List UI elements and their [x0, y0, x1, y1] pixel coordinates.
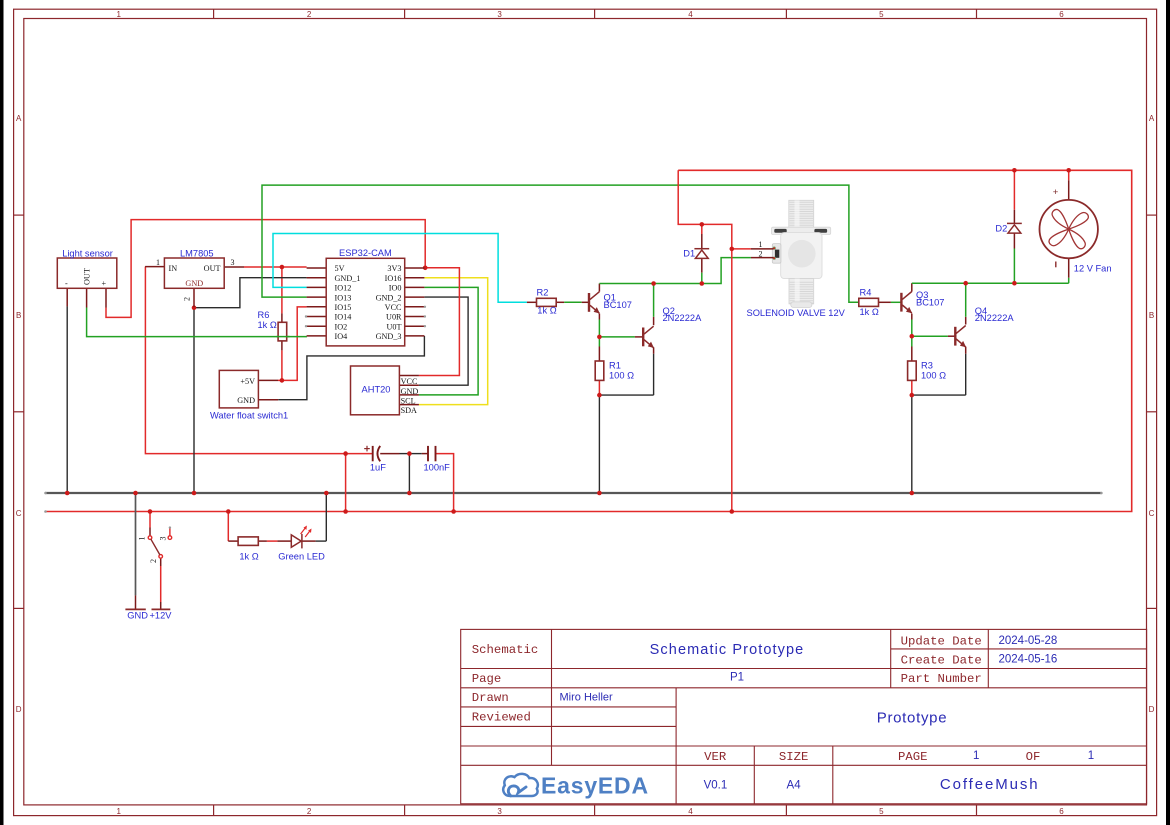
svg-text:1: 1	[759, 240, 763, 249]
title block texts	[472, 634, 1094, 793]
diode D2	[1007, 223, 1022, 233]
svg-text:BC107: BC107	[604, 300, 632, 310]
svg-text:B: B	[16, 311, 21, 320]
wire green IO0 to AHT20 SCL	[419, 287, 478, 395]
junction gnd bus: LED return	[324, 491, 329, 496]
junction gnd bus: LM GND	[192, 491, 197, 496]
junction node D1 bottom	[700, 281, 705, 286]
unconnected pin dot ESP32 U0R	[424, 315, 426, 317]
svg-text:5: 5	[879, 807, 884, 816]
svg-text:GND: GND	[401, 387, 419, 396]
wire R2 right lead to Q1 base	[556, 301, 588, 303]
svg-text:GND_3: GND_3	[376, 332, 402, 341]
svg-text:+12V: +12V	[150, 610, 173, 620]
junction node 12V feed to bus	[343, 451, 348, 456]
wire LM7805 IN down to 12V feed	[145, 267, 372, 454]
svg-text:1: 1	[138, 537, 147, 541]
unconnected pin dot ESP32 IO2	[305, 325, 307, 327]
wire switch feed from +12V bus	[149, 512, 151, 536]
junction node Q4 collector	[963, 281, 968, 286]
svg-text:3: 3	[497, 10, 502, 19]
svg-text:VCC: VCC	[401, 377, 418, 386]
junction gnd bus: light sensor	[65, 491, 70, 496]
junction 12V bus: C1	[343, 509, 348, 514]
svg-text:100nF: 100nF	[424, 463, 451, 473]
junction node D1 top	[700, 222, 705, 227]
junction node R1 bottom	[597, 393, 602, 398]
diode D1	[694, 249, 709, 259]
resistor R-LED 1k	[238, 537, 258, 546]
wire float switch +5V wire	[278, 379, 298, 381]
svg-text:+: +	[102, 279, 107, 288]
wire Q3 emitter to Q4 base	[912, 335, 955, 337]
svg-text:PAGE: PAGE	[898, 750, 928, 764]
wire Q3 collector riser	[911, 283, 913, 291]
svg-text:V0.1: V0.1	[704, 779, 728, 791]
svg-text:Drawn: Drawn	[472, 691, 509, 705]
solenoid valve component image	[772, 200, 831, 307]
svg-text:IO16: IO16	[385, 274, 402, 283]
svg-text:IO12: IO12	[335, 284, 352, 293]
water float switch	[219, 370, 278, 408]
svg-text:OF: OF	[1026, 750, 1041, 764]
svg-text:IN: IN	[169, 264, 178, 273]
svg-text:2: 2	[183, 297, 192, 301]
svg-text:R3: R3	[921, 361, 933, 371]
svg-text:6: 6	[1059, 807, 1064, 816]
transistor Q1	[589, 292, 600, 314]
svg-text:1uF: 1uF	[370, 463, 386, 473]
resistor R4	[859, 298, 879, 306]
svg-text:R1: R1	[609, 361, 621, 371]
junction node D2 top	[1012, 168, 1017, 173]
svg-text:Schematic: Schematic	[472, 643, 538, 657]
svg-text:100 Ω: 100 Ω	[921, 370, 946, 380]
resistor R1	[595, 361, 604, 380]
svg-text:2: 2	[307, 807, 312, 816]
wire light sensor OUT to ESP32 IO4	[87, 308, 307, 337]
svg-text:D1: D1	[683, 249, 695, 259]
wire Q1 emitter drop	[598, 314, 600, 337]
junction node Q3 emitter	[910, 334, 915, 339]
transistor Q2	[643, 326, 654, 348]
wire green over R6 body	[277, 336, 290, 338]
junction 12V bus: solenoid drop	[730, 509, 735, 514]
svg-text:5: 5	[879, 10, 884, 19]
wire green IO13 up-over to R4	[262, 185, 859, 302]
wire red loop to solenoid	[678, 170, 732, 511]
svg-text:LM7805: LM7805	[180, 249, 214, 259]
svg-text:U0R: U0R	[386, 313, 402, 322]
wire R1 chain	[598, 337, 600, 493]
capacitor C1 1uF electrolytic	[373, 446, 381, 461]
solenoid pin1 stub	[751, 248, 774, 250]
wire float switch GND to ESP32 GND_3	[278, 336, 424, 400]
wire cap middle drop to ground bus	[408, 454, 410, 493]
svg-text:Reviewed: Reviewed	[472, 710, 531, 724]
wire D2 top lead	[1013, 170, 1015, 223]
transistor Q3	[901, 292, 912, 314]
svg-text:OUT: OUT	[204, 264, 221, 273]
svg-text:U0T: U0T	[386, 322, 401, 331]
wire Q4 emitter to R3 bottom	[912, 394, 966, 396]
svg-text:3: 3	[497, 807, 502, 816]
svg-text:1: 1	[156, 258, 160, 267]
svg-text:+: +	[1053, 187, 1059, 198]
sensor AHT20	[351, 366, 419, 415]
svg-text:GND_1: GND_1	[335, 274, 361, 283]
junction node Q2 collector	[651, 281, 656, 286]
wire light sensor + to 3V3 rail	[106, 220, 425, 318]
svg-text:1: 1	[973, 750, 979, 762]
svg-text:1: 1	[1088, 750, 1094, 762]
junction node LM OUT / ESP 5V / R6	[280, 265, 285, 270]
wire LED branch feed	[228, 512, 238, 542]
toggle switch SW1	[148, 528, 172, 558]
wire D1 top lead	[701, 224, 703, 248]
wire Q1 collector green rail to solenoid pin2	[599, 258, 751, 284]
svg-text:1k Ω: 1k Ω	[239, 552, 258, 562]
svg-text:D: D	[1149, 705, 1155, 714]
svg-text:12 V Fan: 12 V Fan	[1074, 263, 1112, 273]
wire fan - lead	[1068, 258, 1070, 283]
fan motor 12V	[1040, 200, 1098, 258]
svg-text:EasyEDA: EasyEDA	[541, 773, 649, 799]
wire R-LED link	[258, 540, 291, 542]
resistor R3	[908, 361, 917, 380]
wire R3 chain	[911, 336, 913, 493]
wire Q1 emitter to Q2 base	[599, 336, 642, 338]
junction node Q1 emitter	[597, 335, 602, 340]
svg-text:+5V: +5V	[240, 377, 255, 386]
svg-text:GND: GND	[127, 610, 148, 620]
wire 12V feed drop to +12V bus	[345, 454, 347, 512]
svg-text:Schematic Prototype: Schematic Prototype	[650, 642, 805, 658]
wire LM7805 OUT to ESP32 5V	[244, 266, 307, 268]
svg-text:1: 1	[116, 10, 121, 19]
MCU module ESP32-CAM U1	[307, 258, 425, 346]
unconnected pin dot ESP32 U0T	[424, 325, 426, 327]
svg-text:A: A	[16, 114, 22, 123]
svg-text:2: 2	[149, 559, 158, 563]
svg-text:A: A	[1149, 114, 1155, 123]
svg-text:1k Ω: 1k Ω	[258, 320, 277, 330]
svg-text:SIZE: SIZE	[779, 750, 809, 764]
light sensor module	[57, 258, 117, 308]
svg-text:IO14: IO14	[335, 313, 352, 322]
svg-text:2: 2	[307, 10, 312, 19]
junction node fan +	[1066, 168, 1071, 173]
svg-text:GND: GND	[185, 279, 203, 288]
svg-text:1: 1	[116, 807, 121, 816]
junction node +5V float switch	[280, 378, 285, 383]
svg-text:100 Ω: 100 Ω	[609, 370, 634, 380]
svg-text:4: 4	[688, 10, 693, 19]
svg-text:2: 2	[759, 250, 763, 259]
wire Q2 collector riser	[653, 284, 655, 326]
+12V bus net	[45, 170, 1132, 511]
svg-text:1k Ω: 1k Ω	[860, 307, 879, 317]
svg-text:4: 4	[688, 807, 693, 816]
junction gnd bus: caps mid	[407, 491, 412, 496]
svg-text:SCL: SCL	[401, 397, 416, 406]
wire R4 right lead to Q3 base	[879, 301, 901, 303]
wire solenoid pin1 feed	[732, 248, 751, 250]
svg-text:OUT: OUT	[83, 268, 92, 285]
junction node D2 bottom	[1012, 281, 1017, 286]
svg-text:5V: 5V	[335, 264, 345, 273]
wire switch pin2 to +12V flag	[160, 558, 162, 609]
wire ground bus to GND flag	[135, 493, 137, 609]
svg-text:D2: D2	[995, 223, 1007, 233]
svg-text:3: 3	[231, 258, 235, 267]
wire fan + lead	[1068, 170, 1070, 200]
svg-text:BC107: BC107	[916, 297, 944, 307]
wire light sensor minus to ground bus	[66, 306, 68, 493]
svg-text:3V3: 3V3	[387, 264, 401, 273]
ground bus net GND	[45, 492, 1101, 494]
svg-text:IO15: IO15	[335, 303, 352, 312]
canvas edge bars	[0, 0, 4, 825]
wire Q4 emitter drop	[965, 347, 967, 395]
junction node solenoid pin1	[730, 247, 735, 252]
svg-text:Update Date: Update Date	[901, 634, 982, 648]
wire Q3 emitter drop	[911, 314, 913, 337]
svg-text:Water float switch1: Water float switch1	[210, 411, 288, 421]
junction node 3V3	[423, 266, 428, 271]
wire cyan IO12 to R2	[273, 234, 527, 303]
svg-text:Create Date: Create Date	[901, 653, 982, 667]
svg-text:ESP32-CAM: ESP32-CAM	[339, 248, 392, 258]
junction 12V bus: LED branch	[226, 509, 231, 514]
svg-text:Prototype: Prototype	[877, 710, 948, 727]
svg-text:CoffeeMush: CoffeeMush	[940, 776, 1040, 793]
wire LM7805 GND to ESP32 GND_1	[194, 278, 307, 308]
transistor Q4	[955, 326, 966, 348]
wire D1 bottom lead	[701, 258, 703, 283]
regulator LM7805	[145, 258, 244, 307]
junction gnd bus: GND flag	[133, 491, 138, 496]
wire cap C1-C2 middle link	[380, 453, 428, 455]
svg-text:C: C	[16, 509, 22, 518]
wire yellow IO16 to AHT20 SDA	[419, 278, 488, 405]
wire red 3V3 to AHT20 VCC	[419, 268, 460, 376]
svg-text:GND_2: GND_2	[376, 293, 402, 302]
wire black GND_2 to AHT20 GND	[419, 297, 468, 385]
svg-text:A4: A4	[787, 779, 802, 791]
svg-text:2N2222A: 2N2222A	[975, 313, 1015, 323]
wire C2 right to +12V bus	[436, 454, 454, 512]
svg-text:Part Number: Part Number	[901, 672, 982, 686]
wire Q4 collector riser	[965, 283, 967, 324]
svg-text:Light sensor: Light sensor	[62, 249, 113, 259]
solenoid pin2 stub	[751, 257, 774, 259]
unconnected pin dot ESP32 IO14	[305, 315, 307, 317]
LED Green LED	[291, 526, 311, 549]
wire LED cathode to ground bus	[302, 493, 327, 541]
svg-text:Miro Heller: Miro Heller	[560, 691, 614, 703]
svg-text:3: 3	[158, 537, 167, 541]
svg-text:2024-05-28: 2024-05-28	[999, 635, 1058, 647]
wire +5V riser to IO15	[297, 307, 306, 381]
svg-text:1k Ω: 1k Ω	[537, 306, 556, 316]
junction node caps mid	[407, 451, 412, 456]
wire R6 bottom lead	[281, 341, 283, 381]
svg-text:R6: R6	[258, 310, 270, 320]
resistor R2	[537, 298, 557, 306]
svg-text:Page: Page	[472, 672, 502, 686]
junction gnd bus: R1	[597, 491, 602, 496]
resistor R6	[278, 322, 287, 341]
svg-text:IO2: IO2	[335, 322, 348, 331]
wire Q2 emitter to R1 bottom	[599, 394, 653, 396]
unconnected pin dot ESP32 VCC	[424, 306, 426, 308]
junction node R3 bottom	[910, 393, 915, 398]
ground flag GND	[125, 608, 145, 610]
junction node LM GND	[192, 305, 197, 310]
svg-text:P1: P1	[730, 672, 744, 684]
svg-text:VCC: VCC	[385, 303, 402, 312]
capacitor C2 100nF	[428, 446, 436, 461]
svg-text:VER: VER	[704, 750, 727, 764]
svg-text:B: B	[1149, 311, 1154, 320]
svg-text:AHT20: AHT20	[362, 385, 391, 395]
title block	[461, 629, 1147, 803]
svg-text:R4: R4	[860, 287, 872, 297]
svg-text:Green LED: Green LED	[278, 552, 325, 562]
svg-text:SOLENOID VALVE 12V: SOLENOID VALVE 12V	[747, 308, 846, 318]
svg-text:2024-05-16: 2024-05-16	[999, 654, 1058, 666]
svg-text:R2: R2	[537, 287, 549, 297]
wire Q2 emitter drop	[653, 347, 655, 395]
svg-text:IO13: IO13	[335, 293, 352, 302]
junction 12V bus: C2	[451, 509, 456, 514]
svg-text:6: 6	[1059, 10, 1064, 19]
fan minus label	[1055, 262, 1057, 268]
svg-text:IO4: IO4	[335, 332, 348, 341]
unconnected pin dot switch pin3	[169, 526, 171, 528]
svg-text:-: -	[65, 279, 68, 288]
junction gnd bus: R3	[910, 491, 915, 496]
wire R6 top lead	[281, 267, 283, 322]
EasyEDA logo	[503, 773, 649, 799]
svg-text:GND: GND	[237, 396, 255, 405]
junction 12V bus: switch	[148, 509, 153, 514]
wire D2 bottom lead	[1013, 233, 1015, 283]
wire Q3 collector green rail to fan	[912, 282, 1069, 284]
svg-text:IO0: IO0	[389, 284, 402, 293]
wire LM7805 GND to ground bus	[193, 308, 195, 493]
svg-text:SDA: SDA	[401, 406, 417, 415]
svg-text:C: C	[1149, 509, 1155, 518]
svg-text:2N2222A: 2N2222A	[663, 313, 703, 323]
wire R2 left lead	[527, 301, 537, 303]
wire Q1 collector riser	[598, 284, 600, 292]
power flag +12V	[152, 608, 171, 610]
svg-text:D: D	[16, 705, 22, 714]
